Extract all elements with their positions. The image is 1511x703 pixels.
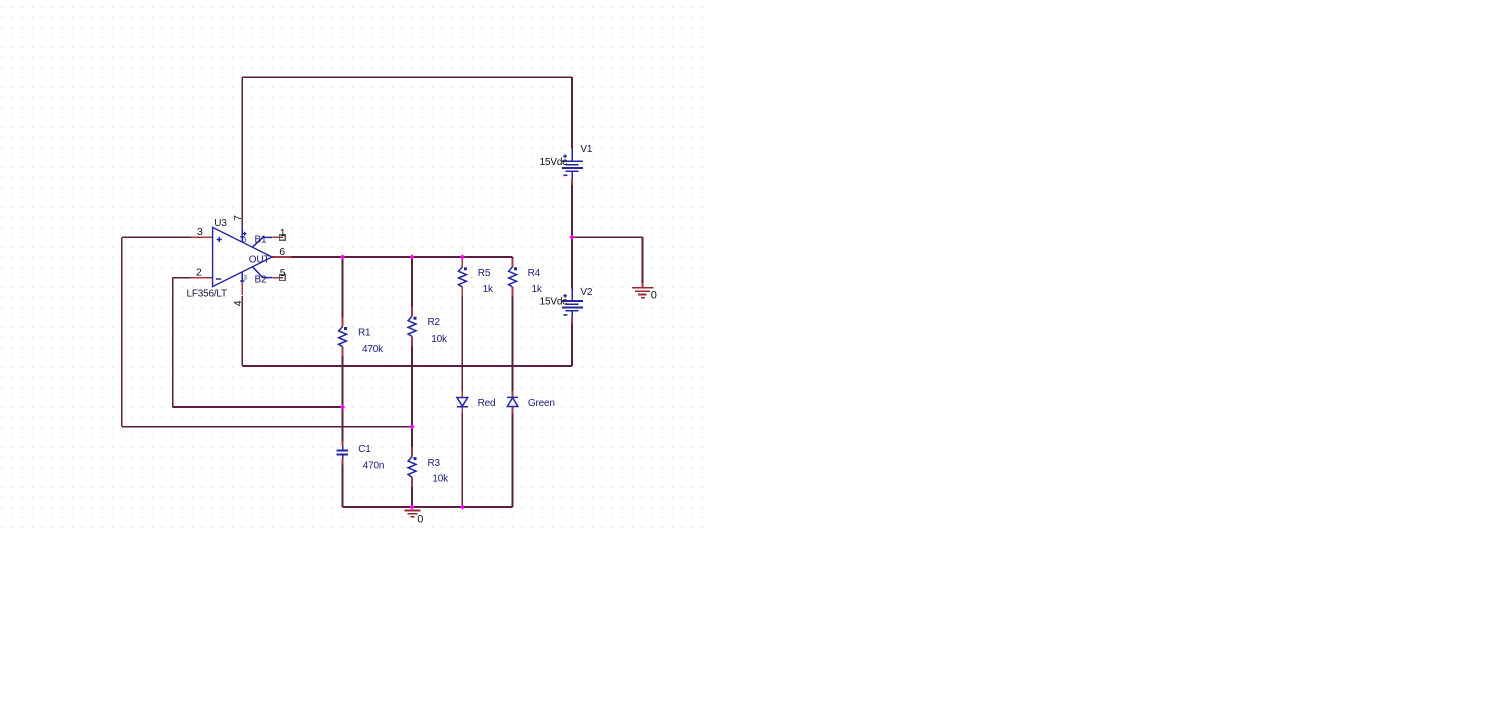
pin stub V2 bottom	[571, 318, 573, 324]
pin stub R4 top	[512, 259, 514, 267]
svg-text:0: 0	[417, 513, 423, 525]
svg-text:C1: C1	[358, 444, 371, 455]
wire pin2 horizontal	[173, 277, 191, 279]
op-amp U3 pin4 inner lead	[241, 272, 243, 283]
resistor R1 end square	[344, 327, 347, 330]
svg-text:7: 7	[232, 215, 244, 221]
pin stub op-amp pin6 OUT	[272, 256, 292, 258]
wire R1 column upper	[342, 257, 344, 317]
wire OUT rail	[292, 256, 513, 258]
junction OUT/R5	[460, 254, 465, 259]
svg-text:10k: 10k	[431, 334, 448, 345]
resistor R5 end square	[464, 267, 467, 270]
resistor R4 zigzag	[509, 267, 517, 287]
op-amp U3 body	[213, 227, 272, 286]
junction V1/V2/ground branch	[569, 235, 574, 240]
svg-text:15Vdc: 15Vdc	[540, 297, 568, 308]
op-amp U3 pin4 tick	[240, 280, 244, 282]
svg-text:470k: 470k	[362, 344, 384, 355]
pin stub R4 bottom	[512, 287, 514, 297]
svg-text:470n: 470n	[363, 460, 384, 471]
wire top rail V+ net	[242, 76, 572, 78]
pin stub diode Green bottom	[512, 407, 514, 414]
op-amp U3 B2 lead	[253, 267, 273, 278]
pin stub R3 top	[411, 447, 413, 457]
op-amp U3 B1 lead	[253, 237, 273, 247]
resistor R2 end square	[414, 317, 417, 320]
pin stub R3 bottom	[411, 477, 413, 487]
capacitor C1 top plate	[337, 449, 349, 451]
op-amp U3 minus input marker	[216, 278, 221, 280]
svg-text:OUT: OUT	[249, 254, 270, 265]
svg-text:V1: V1	[580, 144, 592, 155]
wire V- rail y=366	[242, 365, 572, 367]
svg-text:LF356/LT: LF356/LT	[187, 289, 228, 300]
battery V2 minus mark	[563, 314, 567, 316]
wire pin2 left column	[172, 278, 174, 407]
op-amp U3 pin7 inner lead	[241, 226, 243, 243]
pin stub C1 top	[342, 441, 344, 446]
wire R2 column upper	[411, 257, 413, 307]
svg-text:Green: Green	[528, 398, 555, 409]
battery V2 bottom lead	[571, 311, 573, 318]
svg-text:B2: B2	[255, 274, 267, 285]
diode Red (triangle down + bar)	[457, 398, 468, 407]
pin stub R1 top	[342, 317, 344, 327]
wire diode Red to bottom rail	[461, 413, 463, 507]
pin stub R5 top	[461, 259, 463, 267]
wire ground branch horizontal	[572, 236, 643, 238]
wire R5 to diode Red segment	[461, 297, 463, 391]
capacitor C1 top lead	[342, 446, 344, 450]
wire R4 column upper stub	[512, 257, 514, 260]
junction bottom rail / R3 ground	[409, 504, 414, 509]
wire C1 bottom to bottom rail	[342, 465, 344, 508]
pin stub R1 bottom	[342, 347, 344, 356]
pin stub B1 pad	[272, 236, 283, 238]
battery V1 plus mark	[563, 154, 567, 158]
svg-text:3: 3	[243, 237, 247, 244]
wire R4 to diode Green segment	[512, 297, 514, 391]
op-amp U3 pin7 tick	[240, 236, 244, 238]
svg-text:1k: 1k	[532, 284, 543, 295]
wire R1 to C1 segment	[342, 356, 344, 441]
svg-text:6: 6	[279, 246, 285, 258]
wire diode Green to bottom rail	[512, 413, 514, 507]
pin stub diode Green top	[512, 391, 514, 398]
resistor R3 zigzag	[408, 457, 416, 478]
battery V1 bottom lead	[571, 171, 573, 178]
svg-text:2: 2	[196, 267, 202, 279]
battery V2 plates	[562, 301, 583, 311]
wire R2 to R3 segment	[411, 346, 413, 447]
wire V1 bottom to mid junction	[571, 185, 573, 237]
ground 0 bottom bars	[404, 511, 420, 517]
resistor R4 end square	[514, 267, 517, 270]
diode Green (bar + triangle up)	[507, 397, 518, 406]
svg-text:5: 5	[280, 267, 286, 279]
resistor R5 zigzag	[459, 267, 467, 287]
pin stub ground 0 right	[642, 283, 644, 287]
op-amp U3 pin7 plus mark	[243, 232, 247, 236]
resistor R1 zigzag	[339, 327, 347, 347]
wire y=407 rail to C1 junction	[173, 406, 343, 408]
svg-text:V2: V2	[580, 287, 592, 298]
wire pin3 left column	[121, 237, 123, 426]
svg-text:R3: R3	[428, 458, 441, 469]
junction pin3 rail / R2 column	[409, 424, 414, 429]
svg-text:R1: R1	[358, 328, 371, 339]
svg-text:R5: R5	[478, 268, 491, 279]
pin stub R2 bottom	[411, 336, 413, 346]
pin stub B2 pad	[272, 277, 283, 279]
svg-text:Red: Red	[478, 398, 496, 409]
wire mid junction to V2 top	[571, 237, 573, 288]
pin stub R2 top	[411, 307, 413, 317]
wire ground branch vertical	[642, 237, 644, 283]
junction bottom rail / diode Red	[460, 504, 465, 509]
svg-text:R2: R2	[428, 317, 441, 328]
svg-text:10k: 10k	[432, 473, 449, 484]
wire y=426.6 rail to R3 junction	[122, 426, 412, 428]
junction OUT/R1	[340, 254, 345, 259]
pad square pin5 B2	[280, 275, 286, 281]
svg-text:0: 0	[651, 289, 657, 301]
pin stub op-amp pin4	[241, 283, 243, 296]
pin stub op-amp pin2	[191, 277, 213, 279]
pad square pin1 B1	[280, 235, 286, 241]
resistor R2 zigzag	[408, 316, 416, 336]
svg-text:B1: B1	[255, 234, 267, 245]
op-amp U3 plus input marker	[217, 237, 222, 242]
capacitor C1 bottom lead	[342, 456, 344, 459]
pin stub C1 bottom	[342, 459, 344, 465]
junction pin2 rail / R1 column	[340, 404, 345, 409]
battery V1 top lead	[571, 149, 573, 162]
svg-text:1: 1	[280, 227, 286, 239]
wire R3 bottom to bottom rail	[411, 487, 413, 507]
wire pin7 column	[241, 77, 243, 226]
pin stub diode Red top	[461, 391, 463, 398]
wire right column to V1 top	[571, 77, 573, 148]
svg-text:3: 3	[243, 275, 247, 282]
capacitor C1 bottom plate	[337, 454, 349, 456]
wire pin3 horizontal	[122, 236, 191, 238]
battery V2 plus mark	[563, 294, 567, 298]
junction OUT/R2	[409, 254, 414, 259]
battery V1 minus mark	[563, 174, 567, 176]
svg-text:15Vdc: 15Vdc	[540, 157, 568, 168]
resistor R3 end square	[414, 457, 417, 460]
battery V1 plates	[562, 161, 583, 171]
svg-text:U3: U3	[214, 218, 227, 229]
wire pin4 column up	[241, 296, 243, 366]
svg-text:3: 3	[197, 226, 203, 238]
pin stub op-amp pin3	[191, 236, 213, 238]
ground 0 right bars	[632, 288, 654, 298]
pin stub R5 bottom	[461, 287, 463, 297]
pin stub V1 bottom	[571, 178, 573, 185]
pin stub diode Red bottom	[461, 407, 463, 414]
svg-text:4: 4	[232, 300, 244, 306]
svg-text:R4: R4	[528, 268, 541, 279]
battery V2 top lead	[571, 289, 573, 301]
svg-text:1k: 1k	[483, 284, 494, 295]
wire R5 column upper stub	[461, 257, 463, 260]
wire bottom rail y=507	[343, 506, 513, 508]
wire V2 bottom down	[571, 324, 573, 366]
